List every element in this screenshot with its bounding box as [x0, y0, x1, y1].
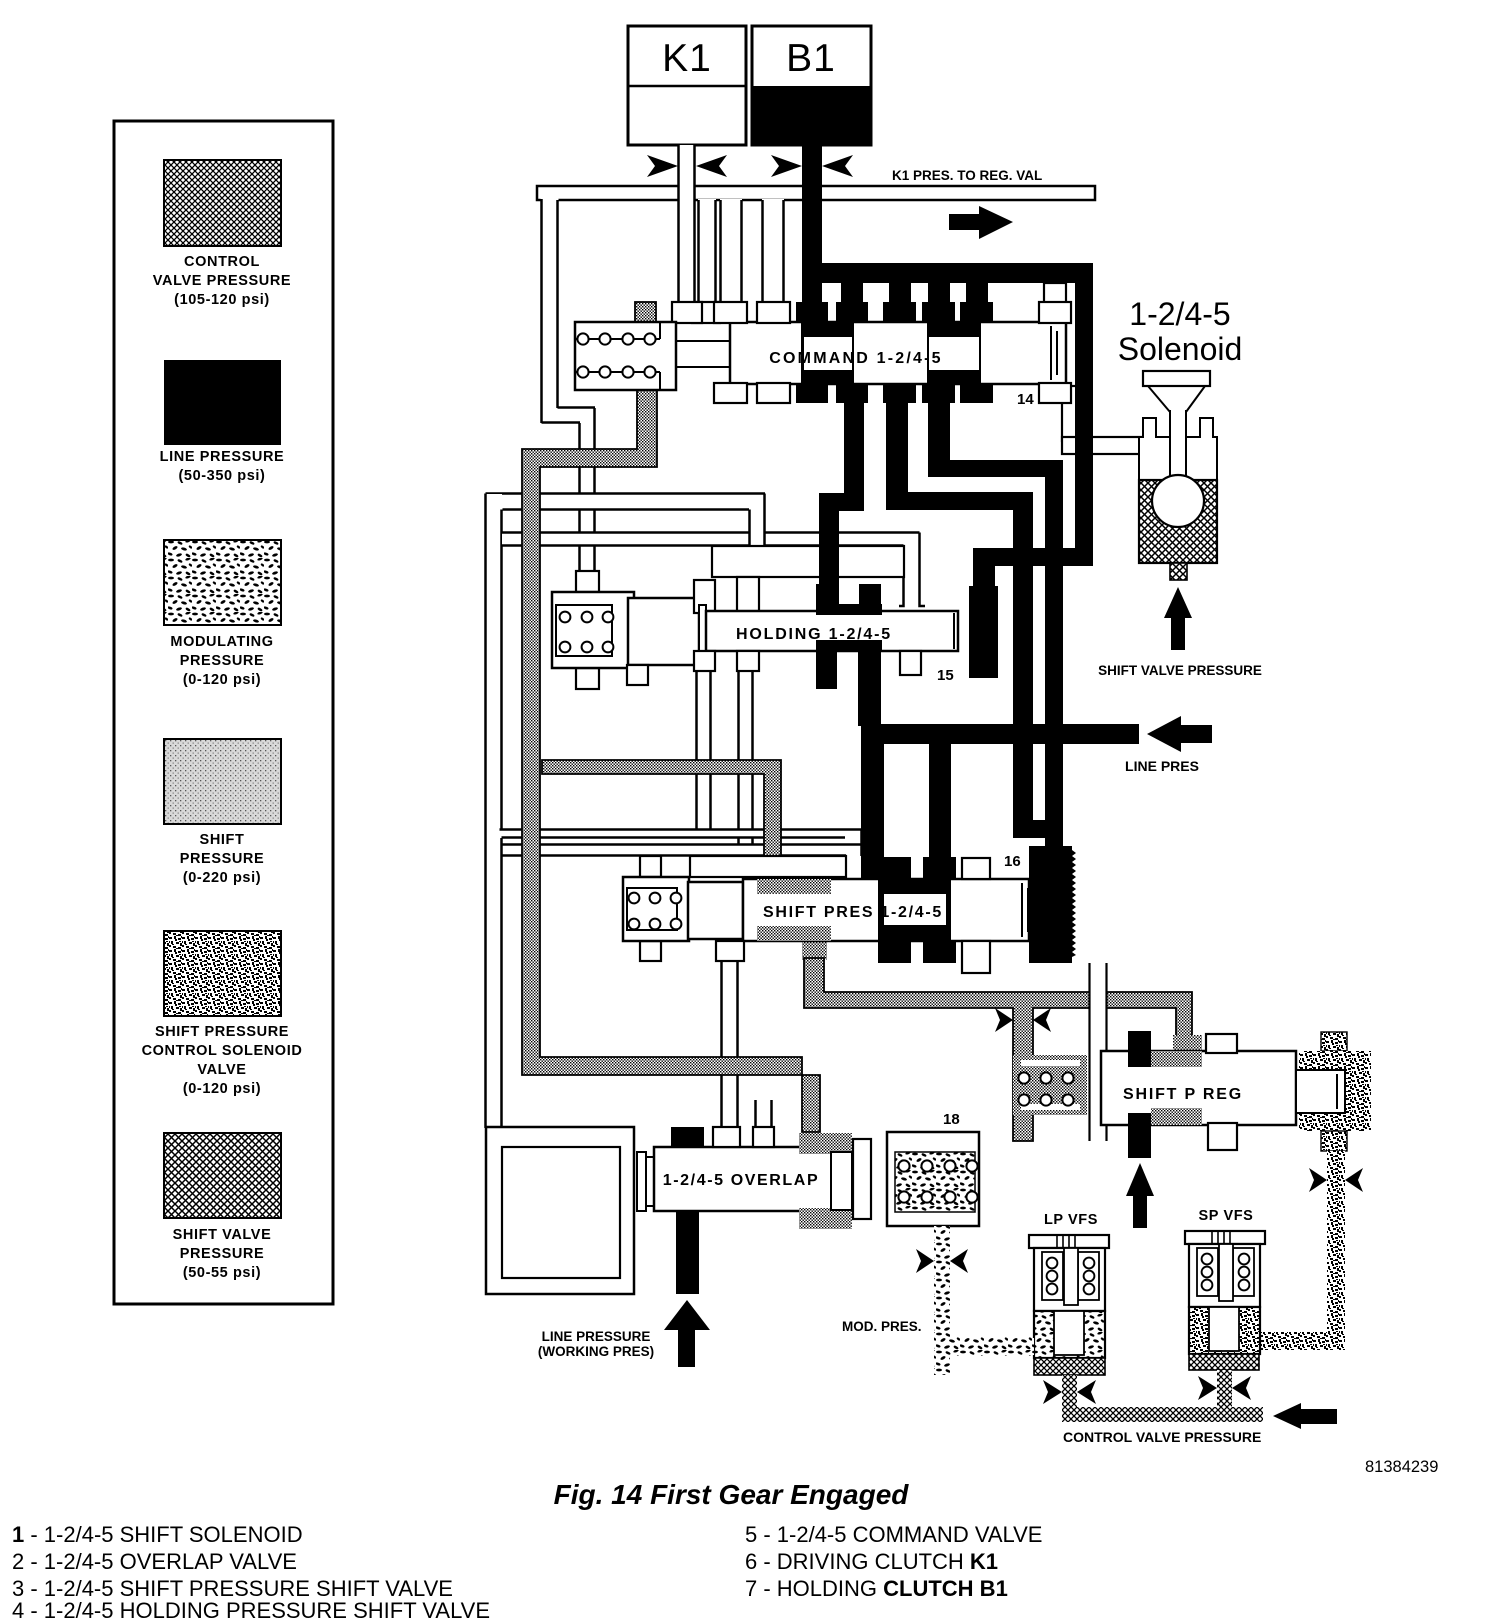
svg-text:(105-120 psi): (105-120 psi)	[174, 292, 270, 308]
valve SHIFT PRES 1-2/4-5 : cap	[690, 856, 846, 877]
label SP VFS	[1199, 1208, 1254, 1224]
legend swatch LINE PRESSURE	[160, 360, 285, 484]
valve SHIFT P REG : noise block right	[1296, 1032, 1371, 1151]
wire white channel manifold drop to holding cap	[750, 494, 766, 580]
restrictor on B1 pipe	[771, 155, 853, 177]
wire black H4 and lower trunk	[928, 460, 1063, 856]
svg-text:MOD. PRES.: MOD. PRES.	[842, 1319, 922, 1334]
wire white channel short to overlap second port	[756, 1100, 773, 1130]
arrow right below manifold	[949, 206, 1013, 239]
wire black V1 command to holding	[819, 403, 864, 605]
wire white channel jog	[542, 408, 596, 423]
label 1-2/4-5 OVERLAP	[663, 1172, 819, 1189]
solenoid 1-2/4-5 : hatch block and ball	[1139, 475, 1217, 580]
solenoid 1-2/4-5 : funnel	[1143, 371, 1210, 412]
svg-text:COMMAND 1-2/4-5: COMMAND 1-2/4-5	[769, 350, 942, 367]
valve COMMAND 1-2/4-5 : body	[730, 322, 1066, 384]
valve SHIFT PRES 1-2/4-5 : piston and body	[688, 879, 1029, 941]
wire gray stub above command spring box	[635, 302, 656, 323]
svg-text:1-2/4-5 OVERLAP: 1-2/4-5 OVERLAP	[663, 1172, 819, 1189]
svg-text:CONTROL VALVE PRESSURE: CONTROL VALVE PRESSURE	[1063, 1429, 1261, 1445]
clutch B1 box	[752, 26, 871, 145]
svg-text:LP VFS: LP VFS	[1044, 1212, 1098, 1228]
svg-text:VALVE PRESSURE: VALVE PRESSURE	[153, 273, 291, 289]
svg-text:6 - DRIVING CLUTCH K1: 6 - DRIVING CLUTCH K1	[745, 1549, 998, 1574]
wire black drop to shiftpres left port	[861, 744, 884, 878]
wire control valve pressure duct bottom	[1062, 1407, 1263, 1422]
svg-text:SHIFT P REG: SHIFT P REG	[1123, 1086, 1243, 1103]
svg-text:PRESSURE: PRESSURE	[180, 653, 265, 669]
valve 1-2/4-5 OVERLAP : piston	[853, 1139, 871, 1219]
label CONTROL VALVE PRESSURE	[1063, 1429, 1261, 1445]
svg-text:(WORKING PRES): (WORKING PRES)	[538, 1344, 654, 1359]
restrictor on gray line above shift p reg spring box	[995, 1008, 1051, 1032]
label K1 PRES. TO REG. VAL	[892, 168, 1042, 183]
svg-text:LINE PRESSURE: LINE PRESSURE	[542, 1329, 651, 1344]
valve HOLDING : black end block	[954, 586, 998, 678]
label LINE PRES	[1125, 758, 1199, 774]
svg-text:MODULATING: MODULATING	[170, 634, 273, 650]
wire modulating line below box 18	[934, 1226, 1034, 1375]
valve COMMAND : black port flares bottom	[796, 383, 993, 403]
valve COMMAND 1-2/4-5 : spool rod	[676, 341, 730, 367]
label SHIFT VALVE PRESSURE	[1098, 663, 1262, 678]
wire noise line below shift p reg	[1258, 1151, 1345, 1350]
wire white channels above command valve	[692, 199, 784, 323]
valve COMMAND : interior black sections	[801, 322, 981, 384]
restrictor on K1 pipe	[647, 155, 727, 177]
svg-text:VALVE: VALVE	[197, 1062, 246, 1078]
svg-text:B1: B1	[786, 37, 836, 80]
valve 1-2/4-5 OVERLAP : gray chamber right	[799, 1133, 852, 1229]
valve HOLDING : black top ports and interior	[816, 584, 882, 651]
svg-text:Solenoid: Solenoid	[1118, 331, 1243, 367]
valve 1-2/4-5 OVERLAP : white top ports	[713, 1127, 774, 1147]
svg-text:(0-220 psi): (0-220 psi)	[183, 870, 261, 886]
svg-text:(50-350 psi): (50-350 psi)	[179, 468, 266, 484]
svg-text:K1: K1	[662, 37, 712, 80]
label MOD. PRES.	[842, 1319, 922, 1334]
label LP VFS	[1044, 1212, 1098, 1228]
wire white channel long left vertical to overlap	[486, 494, 503, 1129]
wire black H5 to holding end block	[973, 548, 1093, 588]
wire white channel left drop from manifold	[541, 198, 559, 423]
svg-text:PRESSURE: PRESSURE	[180, 851, 265, 867]
svg-text:Fig. 14 First Gear Engaged: Fig. 14 First Gear Engaged	[554, 1479, 910, 1510]
svg-text:(0-120 psi): (0-120 psi)	[183, 1081, 261, 1097]
valve HOLDING 1-2/4-5 : body	[699, 605, 958, 658]
valve 1-2/4-5 OVERLAP : body	[654, 1147, 832, 1211]
svg-text:5 - 1-2/4-5 COMMAND VALVE: 5 - 1-2/4-5 COMMAND VALVE	[745, 1522, 1042, 1547]
label SHIFT PRES 1-2/4-5	[763, 904, 943, 921]
svg-text:HOLDING 1-2/4-5: HOLDING 1-2/4-5	[736, 626, 892, 643]
valve SHIFT PRES : interior black	[878, 879, 951, 941]
valve SHIFT P REG : gray interior bands	[1151, 1051, 1202, 1125]
svg-text:1-2/4-5: 1-2/4-5	[1129, 296, 1230, 332]
valve SHIFT PRES 1-2/4-5 : white ports	[716, 858, 990, 973]
legend box	[114, 121, 333, 1304]
valve COMMAND 1-2/4-5 : spring box	[575, 322, 676, 390]
legend swatch SHIFT VALVE PRESSURE	[164, 1133, 281, 1281]
wire white channel command to solenoid	[1062, 386, 1141, 454]
svg-text:7 - HOLDING CLUTCH B1: 7 - HOLDING CLUTCH B1	[745, 1576, 1008, 1601]
label HOLDING 1-2/4-5	[736, 626, 892, 643]
valve HOLDING 1-2/4-5 : white bottom ports	[627, 651, 921, 685]
restrictor on modulating line	[916, 1249, 968, 1273]
label LINE PRESSURE (WORKING PRES)	[538, 1329, 654, 1359]
wire black right trunk upper	[1075, 263, 1093, 566]
label pin 15	[937, 667, 954, 684]
svg-text:LINE PRES: LINE PRES	[1125, 758, 1199, 774]
wire white channel drop to holding spring box	[580, 408, 595, 571]
label pin 14	[1017, 391, 1034, 408]
label SHIFT P REG	[1123, 1086, 1243, 1103]
valve SHIFT PRES 1-2/4-5 : gray interior	[757, 879, 831, 941]
valve HOLDING 1-2/4-5 : spring box	[552, 571, 634, 689]
svg-text:18: 18	[943, 1111, 960, 1128]
valve SHIFT P REG : spring box gray	[1013, 1055, 1087, 1115]
wire white channel shiftpres to overlap	[722, 958, 739, 1130]
wire gray duct to holding and drop to shiftpres	[542, 760, 783, 879]
valve HOLDING : black bottom port stub	[816, 651, 837, 689]
valve SHIFT P REG : black ports	[1128, 1031, 1151, 1158]
label pin 16	[1004, 853, 1021, 870]
label 81384239	[1365, 1458, 1438, 1476]
restrictor on LP VFS pipe	[1043, 1380, 1096, 1404]
wire B1 black pipe	[802, 145, 822, 285]
label pin 18	[943, 1111, 960, 1128]
svg-text:PRESSURE: PRESSURE	[180, 1246, 265, 1262]
wire black stubs into command top	[802, 283, 988, 303]
solenoid LP VFS	[1010, 1235, 1109, 1408]
legend swatch MODULATING PRESSURE	[164, 540, 281, 688]
valve SHIFT PRES : black port flares top	[878, 857, 956, 879]
valve SHIFT PRES : black port flares bottom	[878, 941, 956, 963]
list legend items left column	[12, 1522, 490, 1620]
svg-text:CONTROL SOLENOID: CONTROL SOLENOID	[142, 1043, 303, 1059]
valve 1-2/4-5 OVERLAP : end plates	[637, 1152, 654, 1211]
wire black LINE PRES horizontal	[861, 724, 1139, 744]
svg-text:SHIFT VALVE PRESSURE: SHIFT VALVE PRESSURE	[1098, 663, 1262, 678]
svg-text:16: 16	[1004, 853, 1021, 870]
valve HOLDING 1-2/4-5 : piston block	[628, 598, 699, 665]
clutch K1 box	[628, 26, 746, 145]
svg-text:K1 PRES. TO REG. VAL: K1 PRES. TO REG. VAL	[892, 168, 1042, 183]
arrow up shift valve pressure	[1164, 587, 1192, 650]
svg-text:(50-55 psi): (50-55 psi)	[183, 1265, 261, 1281]
caption Fig. 14 First Gear Engaged	[554, 1479, 910, 1510]
svg-text:14: 14	[1017, 391, 1034, 408]
svg-text:SHIFT PRESSURE: SHIFT PRESSURE	[155, 1024, 289, 1040]
wire white stub above command right	[1044, 283, 1066, 303]
arrow up into shift p reg	[1126, 1163, 1154, 1228]
solenoid 1-2/4-5 : body	[1139, 410, 1217, 480]
svg-text:2 - 1-2/4-5 OVERLAP VALVE: 2 - 1-2/4-5 OVERLAP VALVE	[12, 1549, 297, 1574]
svg-text:SHIFT: SHIFT	[200, 832, 245, 848]
svg-text:15: 15	[937, 667, 954, 684]
arrow control valve pressure pointing left	[1273, 1403, 1337, 1429]
wire gray below shiftpres to shiftpreg duct	[802, 941, 1202, 1141]
legend swatch CONTROL VALVE PRESSURE	[153, 160, 291, 308]
valve 1-2/4-5 OVERLAP : spring box 18	[887, 1132, 979, 1226]
valve 1-2/4-5 OVERLAP : left bracket channel	[486, 1127, 634, 1294]
valve COMMAND : black port flares top	[796, 302, 993, 323]
valve SHIFT P REG : body	[1101, 1034, 1296, 1150]
restrictor on noise line	[1309, 1168, 1363, 1192]
wire K1 white pipe	[672, 145, 702, 323]
arrow up into overlap (line pressure working)	[664, 1211, 710, 1367]
valve OVERLAP : black top block	[671, 1127, 704, 1147]
wire black holding to line-pres junction	[858, 651, 881, 726]
list legend items right column	[745, 1522, 1042, 1601]
white channel crossing gray duct (to shift p reg)	[1090, 963, 1108, 1141]
svg-text:SP VFS: SP VFS	[1199, 1208, 1254, 1224]
solenoid SP VFS	[1185, 1231, 1265, 1408]
wire white channel horizontal pair above shiftpres	[500, 830, 862, 857]
wire black V3 command to H4	[928, 403, 950, 477]
svg-text:SHIFT VALVE: SHIFT VALVE	[173, 1227, 272, 1243]
wire black V2 command to jog	[886, 403, 1063, 838]
svg-text:4 - 1-2/4-5 HOLDING PRESSURE S: 4 - 1-2/4-5 HOLDING PRESSURE SHIFT VALVE	[12, 1598, 490, 1620]
valve SHIFT PRES 1-2/4-5 : spring box	[623, 856, 689, 961]
label 1-2/4-5 Solenoid	[1118, 296, 1243, 367]
wire white channels holding to shiftpres	[697, 652, 754, 847]
valve SHIFT PRES : black end block	[1029, 846, 1076, 963]
wire white channel horizontal mid-left	[486, 494, 766, 510]
wire white channel top K1-PRES manifold	[537, 186, 1095, 200]
wire gray main shift-valve-pressure line (command box to overlap)	[522, 390, 820, 1132]
svg-text:CONTROL: CONTROL	[184, 254, 260, 270]
legend swatch SHIFT PRESSURE	[164, 739, 281, 886]
legend swatch SHIFT PRESSURE CONTROL SOLENOID VALVE	[142, 931, 303, 1097]
wire black trunk top horizontal	[802, 263, 1093, 283]
valve HOLDING 1-2/4-5 : cap and ports	[694, 546, 904, 613]
svg-text:SHIFT PRES 1-2/4-5: SHIFT PRES 1-2/4-5	[763, 904, 943, 921]
svg-text:(0-120 psi): (0-120 psi)	[183, 672, 261, 688]
arrow LINE PRES pointing left	[1147, 716, 1212, 752]
wire black drop line-pres to shiftpres second port	[929, 744, 951, 878]
valve COMMAND 1-2/4-5 : white port flares	[714, 302, 1071, 403]
label COMMAND 1-2/4-5	[769, 350, 942, 367]
svg-text:81384239: 81384239	[1365, 1458, 1438, 1476]
svg-text:LINE PRESSURE: LINE PRESSURE	[160, 449, 285, 465]
wire white channel lower horizontal to holding port	[502, 533, 920, 547]
restrictor on SP VFS pipe	[1198, 1376, 1251, 1400]
wire white channel down to holding top port	[899, 533, 925, 612]
svg-text:1 - 1-2/4-5 SHIFT SOLENOID: 1 - 1-2/4-5 SHIFT SOLENOID	[12, 1522, 303, 1547]
